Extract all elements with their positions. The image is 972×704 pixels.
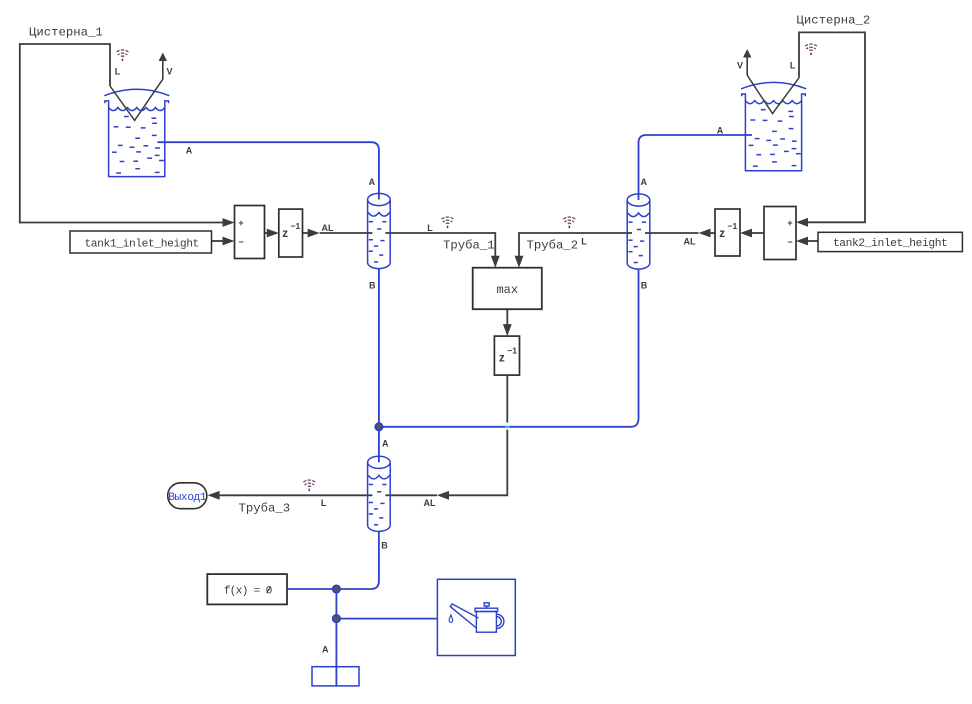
svg-text:V: V [737, 60, 743, 70]
pipe Труба_2 cylinder [627, 200, 650, 269]
svg-text:−1: −1 [728, 221, 738, 231]
vent arrow V tank2 [746, 56, 748, 75]
svg-text:z: z [719, 228, 725, 240]
svg-text:max: max [496, 283, 518, 297]
junction node 2 [333, 585, 340, 592]
wifi icon Труба_2 [562, 217, 576, 224]
wifi icon tank2 L [804, 44, 818, 51]
svg-text:Труба_2: Труба_2 [527, 239, 579, 253]
wire Труба_3.B to junction2 [336, 525, 379, 589]
svg-text:B: B [641, 281, 648, 291]
oil can icon [449, 603, 504, 632]
wire z2r to Труба_2.AL [699, 229, 711, 238]
svg-text:−: − [238, 237, 243, 247]
svg-text:−1: −1 [291, 221, 301, 231]
svg-text:L: L [321, 498, 327, 508]
wire junction3 to oil source [336, 618, 437, 620]
svg-text:Цистерна_2: Цистерна_2 [797, 13, 871, 27]
wire junction2 to junction3 [335, 589, 337, 619]
level sensor L tank2 [747, 75, 799, 113]
pipe Труба_3 cylinder [368, 462, 391, 531]
svg-text:A: A [186, 145, 193, 155]
wire Труба_1.B down to junction and Труба_3.A [378, 262, 380, 462]
wifi icon Труба_1 [441, 217, 455, 224]
wire Труба_1.L to max input 1 [320, 233, 496, 256]
wire tank2.L to add2 plus [799, 32, 865, 222]
pipe Труба_2 port stubs [627, 232, 632, 234]
slashed zero mark [267, 587, 271, 593]
wire Труба_2.L to max input 2 [519, 233, 699, 256]
wire junction3 to boundary A [335, 619, 337, 686]
unit delay z1 [279, 209, 303, 257]
unit delay z3 (right) [715, 209, 740, 256]
pipe Труба_1 cylinder [368, 200, 391, 269]
pipe Труба_1 port stubs [368, 232, 373, 234]
max block [473, 268, 542, 310]
wire add1 to z1 [265, 232, 269, 234]
wire tank2.A to Труба_2.A [639, 135, 753, 199]
wire tank2_inlet_height to add2 minus [796, 237, 808, 246]
add block U2 (right sum) [764, 207, 796, 260]
crossing tick cyan [505, 426, 510, 428]
svg-text:Выход1: Выход1 [168, 492, 207, 504]
wire Труба_3.L to Выход1 [220, 494, 438, 496]
junction node 1 [375, 423, 382, 430]
wire tank1.L to add1 plus [20, 44, 223, 223]
wifi icon Труба_3 [302, 480, 316, 487]
pipe Труба_3 port stubs [368, 494, 373, 496]
svg-text:−: − [787, 237, 792, 247]
wire tank1.A to Труба_1.A [158, 142, 379, 199]
svg-text:f(x) = 0: f(x) = 0 [224, 585, 273, 597]
wire add2 to z2r [740, 229, 752, 238]
equation block f(x)=0 [207, 574, 287, 604]
boundary block (bottom small box) [312, 667, 359, 686]
svg-text:A: A [322, 644, 329, 654]
svg-text:Цистерна_1: Цистерна_1 [29, 26, 103, 40]
vent arrow V tank1 [162, 60, 164, 80]
svg-text:AL: AL [424, 498, 436, 508]
svg-text:V: V [166, 67, 172, 77]
wire junction to Труба_2.B [379, 262, 639, 427]
svg-text:AL: AL [684, 237, 696, 247]
wire f(x)=0 to junction2 [287, 588, 336, 590]
svg-text:A: A [640, 177, 647, 187]
svg-text:Труба_3: Труба_3 [239, 502, 291, 516]
svg-text:z: z [499, 353, 505, 365]
svg-text:tank2_inlet_height: tank2_inlet_height [833, 238, 947, 250]
svg-text:tank1_inlet_height: tank1_inlet_height [84, 239, 198, 251]
wire z1 to Труба_1.AL [303, 232, 310, 234]
oil source block border [437, 579, 515, 655]
svg-text:A: A [369, 177, 376, 187]
svg-text:A: A [382, 438, 389, 448]
svg-text:Труба_1: Труба_1 [443, 239, 495, 253]
wire tank1_inlet_height to add1 minus [212, 240, 225, 242]
svg-text:B: B [369, 281, 376, 291]
svg-text:L: L [115, 67, 121, 77]
constant block tank2_inlet_height [818, 232, 962, 251]
svg-text:B: B [381, 541, 388, 551]
svg-text:z: z [282, 228, 288, 240]
wifi icon tank1 L [116, 50, 130, 57]
unit delay z2 [494, 336, 519, 375]
svg-text:+: + [238, 218, 243, 228]
svg-text:+: + [787, 218, 792, 228]
svg-text:L: L [581, 237, 587, 247]
svg-text:A: A [717, 126, 724, 136]
level sensor L tank1 [110, 79, 163, 120]
svg-text:AL: AL [322, 223, 334, 233]
wire z2 to Труба_3.AL (with crossing gap) [506, 375, 508, 423]
svg-text:L: L [427, 223, 433, 233]
add block U1 (left sum) [235, 206, 265, 259]
tank Цистерна_1 vessel [104, 89, 169, 176]
tank Цистерна_2 vessel [741, 82, 806, 170]
svg-text:L: L [790, 60, 796, 70]
output connector Выход1 [168, 483, 207, 509]
wire max to z2 [506, 309, 508, 325]
constant block tank1_inlet_height [70, 231, 212, 253]
junction node 3 [333, 615, 340, 622]
svg-text:−1: −1 [507, 346, 517, 356]
